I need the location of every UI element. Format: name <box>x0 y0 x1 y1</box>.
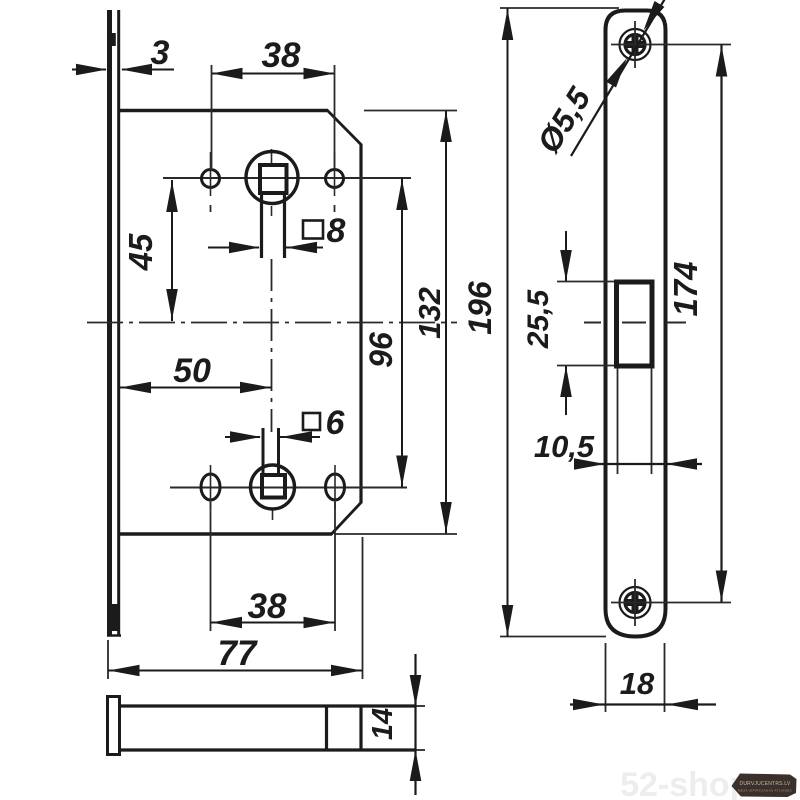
svg-text:38: 38 <box>262 36 301 75</box>
latch extension line left <box>617 368 619 474</box>
svg-text:45: 45 <box>122 233 159 271</box>
svg-text:8: 8 <box>327 212 346 250</box>
top hole row centerline <box>163 177 411 179</box>
dimension 196 bottom arrow <box>502 605 514 636</box>
latch extension line right <box>651 368 653 474</box>
dimension 18 left arrow <box>573 699 604 711</box>
dimension 8 right arrow <box>286 242 317 254</box>
faceplate strip inner dark segment bottom <box>109 604 118 631</box>
bottom screw cross horizontal <box>626 599 645 606</box>
dimension 96 top arrow <box>396 179 408 210</box>
dimension 3 right arrow <box>121 64 152 76</box>
top right screw hole vertical tick <box>334 152 336 196</box>
dimension 38 bottom right extension line <box>334 502 336 631</box>
dimension 45 dim line <box>171 180 173 321</box>
svg-text:25,5: 25,5 <box>522 288 555 349</box>
bottom left oval vertical tick <box>210 465 212 509</box>
svg-text:38: 38 <box>248 587 287 626</box>
right view faceplate outline <box>606 11 666 637</box>
dimension 38 bottom right arrow <box>304 617 335 629</box>
dimension 196 top extension line <box>500 7 619 9</box>
spindle shaft line left (top) <box>260 193 263 258</box>
vertical axis tick below top circle <box>271 206 273 216</box>
svg-text:Ø5,5: Ø5,5 <box>530 80 598 159</box>
lock body right edge <box>359 144 362 503</box>
svg-text:50: 50 <box>173 352 211 390</box>
svg-text:77: 77 <box>218 634 258 673</box>
main horizontal centerline of body <box>87 322 457 324</box>
side view faceplate bar <box>108 697 120 755</box>
dimension 25.5 bottom extension line <box>557 365 614 367</box>
latch hole rectangle <box>617 282 653 366</box>
dimension 196 top arrow <box>502 9 514 40</box>
wc spindle shaft line left (bottom) <box>262 428 265 474</box>
lock body top edge <box>120 109 327 113</box>
dimension 3 left arrow <box>76 64 107 76</box>
bottom screw horizontal centerline / 174 extension <box>611 602 731 604</box>
side view divider line 2 <box>359 706 362 750</box>
svg-text:MEZA IEPIRKSANAS ATLAIDES: MEZA IEPIRKSANAS ATLAIDES <box>738 789 792 793</box>
left view: faceplate edge strip left line <box>107 10 112 636</box>
dimension 18 left extension line <box>605 643 607 712</box>
dimension 38 bottom dim line <box>211 622 336 624</box>
side view strip bottom edge extension <box>416 749 425 751</box>
dimension 45 top arrow <box>166 181 178 212</box>
bottom screw inner circle <box>625 593 645 613</box>
top screw horizontal centerline / 174 extension <box>611 44 731 46</box>
dimension 8 left tail <box>208 247 259 249</box>
vertical axis centerline of spindle (upper tick) <box>271 149 273 163</box>
dimension 8 right tail <box>286 247 323 249</box>
dimension 77 dim line <box>108 670 363 672</box>
faceplate strip inner mark top <box>112 33 116 46</box>
lock body bottom edge <box>120 532 332 536</box>
bottom right oval hole <box>326 474 345 500</box>
dimension 196 dim line <box>507 8 509 637</box>
bottom screw vertical centerline <box>634 579 636 626</box>
dimension 25.5 top arrow <box>560 250 572 281</box>
side view strip bottom edge <box>120 748 416 751</box>
top screw cross horizontal <box>626 41 645 48</box>
dimension 25.5 bottom tail <box>565 366 567 415</box>
dimension 14 bottom arrow <box>410 750 422 781</box>
svg-text:132: 132 <box>412 287 447 339</box>
left view: faceplate edge strip right line <box>117 10 120 636</box>
top left screw hole vertical tick <box>210 152 212 196</box>
svg-text:3: 3 <box>151 34 170 72</box>
dimension 6 left arrow <box>230 431 261 443</box>
vertical axis tick below bottom circle <box>272 510 274 520</box>
dimension 25.5 bottom arrow <box>560 366 572 397</box>
dimension 10.5 right arrow <box>666 458 697 470</box>
dimension 18 dim line <box>570 703 716 705</box>
bottom hole row centerline <box>170 487 407 489</box>
bottom right oval vertical tick <box>334 465 336 509</box>
lock body bottom-right chamfer <box>331 502 362 535</box>
dimension 196 bottom extension line <box>500 636 606 638</box>
svg-text:DURVJUCENTRS.LV: DURVJUCENTRS.LV <box>740 781 791 787</box>
wc spindle shaft line right (bottom) <box>277 428 280 474</box>
dimension 174 dim line <box>720 45 722 603</box>
dimension 8 left arrow <box>229 242 260 254</box>
handle spindle square 8mm <box>260 165 287 193</box>
diameter 5.5 leader line <box>571 0 666 156</box>
svg-text:6: 6 <box>326 404 346 442</box>
dimension 38 bottom left extension line <box>210 502 212 631</box>
dimension 25.5 top extension line <box>557 281 614 283</box>
dimension 77 left arrow <box>109 665 140 677</box>
lock body top-right chamfer <box>327 110 362 146</box>
svg-text:14: 14 <box>367 708 399 740</box>
dimension 38 top left extension line <box>211 65 213 168</box>
svg-text:96: 96 <box>363 332 399 368</box>
dimension 132 bottom extension line <box>334 533 457 535</box>
dimension 14 dim line <box>414 654 416 795</box>
bottom screw cross vertical <box>632 593 639 612</box>
side view divider line 1 <box>325 706 328 750</box>
top screw outer circle <box>620 29 651 60</box>
top right screw hole below dash <box>334 205 336 212</box>
wc spindle square 6mm <box>262 475 285 498</box>
svg-text:18: 18 <box>620 666 655 701</box>
dimension 174 top arrow <box>716 46 728 77</box>
dimension 38 bottom left arrow <box>211 617 242 629</box>
faceplate strip bottom cap <box>107 634 121 637</box>
dimension 38 top right arrow <box>304 68 335 80</box>
dimension 6 right tail <box>280 436 320 438</box>
top left screw hole <box>202 170 220 188</box>
dimension 6 right arrow <box>281 431 312 443</box>
svg-text:196: 196 <box>462 281 498 335</box>
top screw cross vertical <box>632 35 639 54</box>
vertical axis centerline between squares (dash-dot) <box>271 259 273 432</box>
diameter 5.5 upper arrow <box>639 1 665 34</box>
top right screw hole <box>326 170 344 188</box>
dimension 77 right extension line <box>362 537 364 679</box>
dimension 25.5 top tail <box>565 231 567 281</box>
dimension 10.5 dim line <box>581 463 702 465</box>
dimension 6 left tail <box>225 436 260 438</box>
dimension 18 right arrow <box>667 699 698 711</box>
dimension 77 left extension line <box>107 640 109 679</box>
dimension 10.5 left arrow <box>574 458 605 470</box>
dimension 3 dim line left tail <box>72 69 106 71</box>
dimension 132 bottom arrow <box>440 502 452 533</box>
bottom screw outer circle <box>620 587 651 618</box>
dimension 6 square symbol <box>303 413 320 430</box>
svg-text:10,5: 10,5 <box>534 429 595 464</box>
dimension 132 top arrow <box>440 111 452 142</box>
spindle shaft line right (top) <box>283 193 286 258</box>
dimension 38 top right extension line <box>334 65 336 168</box>
dimension 38 top left arrow <box>212 68 243 80</box>
dimension 50 left arrow <box>120 382 151 394</box>
dimension 132 dim line <box>445 110 447 534</box>
dimension 50 dim line <box>119 387 272 389</box>
bottom left oval hole <box>201 474 220 500</box>
dimension 38 top dim line <box>212 73 335 75</box>
top left screw hole below dash <box>210 205 212 212</box>
dimension 96 dim line <box>401 178 403 488</box>
wc spindle circle <box>251 465 295 509</box>
dimension 14 top arrow <box>410 675 422 706</box>
dimension 50 right arrow <box>240 382 271 394</box>
latch centerline dashes <box>584 322 686 324</box>
dimension 18 right extension line <box>664 643 666 712</box>
dimension 96 bottom arrow <box>396 456 408 487</box>
handle spindle circle <box>246 152 298 204</box>
dimension 8 square symbol <box>303 221 323 239</box>
side view strip top edge <box>120 704 416 707</box>
dimension 174 bottom arrow <box>716 571 728 602</box>
top screw inner circle <box>625 35 645 55</box>
dimension 45 bottom arrow <box>166 289 178 320</box>
dimension 77 right arrow <box>331 665 362 677</box>
shop badge <box>732 774 797 798</box>
dimension 132 top extension line <box>364 110 457 112</box>
dimension 3 right tail <box>122 69 174 71</box>
top screw vertical centerline <box>634 21 636 68</box>
side view strip top edge extension <box>416 705 425 707</box>
diameter 5.5 lower arrow <box>606 55 632 88</box>
svg-text:174: 174 <box>667 261 704 316</box>
